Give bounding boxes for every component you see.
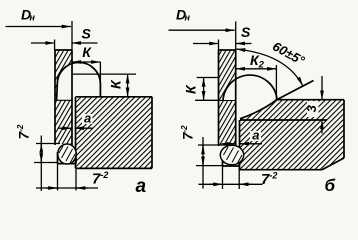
svg-text:60±5°: 60±5° bbox=[270, 39, 308, 69]
svg-text:н: н bbox=[185, 13, 191, 23]
svg-text:К: К bbox=[108, 79, 124, 89]
svg-text:а: а bbox=[84, 111, 91, 126]
svg-text:К: К bbox=[183, 84, 199, 94]
svg-text:а: а bbox=[252, 127, 259, 142]
svg-text:S: S bbox=[82, 25, 92, 41]
svg-text:а: а bbox=[136, 176, 147, 197]
svg-text:3: 3 bbox=[304, 104, 319, 112]
svg-text:S: S bbox=[241, 24, 251, 40]
svg-text:б: б bbox=[325, 176, 336, 195]
svg-text:7-2: 7-2 bbox=[16, 124, 31, 139]
svg-text:7-2: 7-2 bbox=[261, 170, 277, 188]
svg-text:н: н bbox=[30, 13, 36, 23]
svg-text:7-2: 7-2 bbox=[92, 170, 108, 188]
svg-text:7-2: 7-2 bbox=[180, 125, 195, 140]
svg-text:К: К bbox=[82, 44, 92, 60]
